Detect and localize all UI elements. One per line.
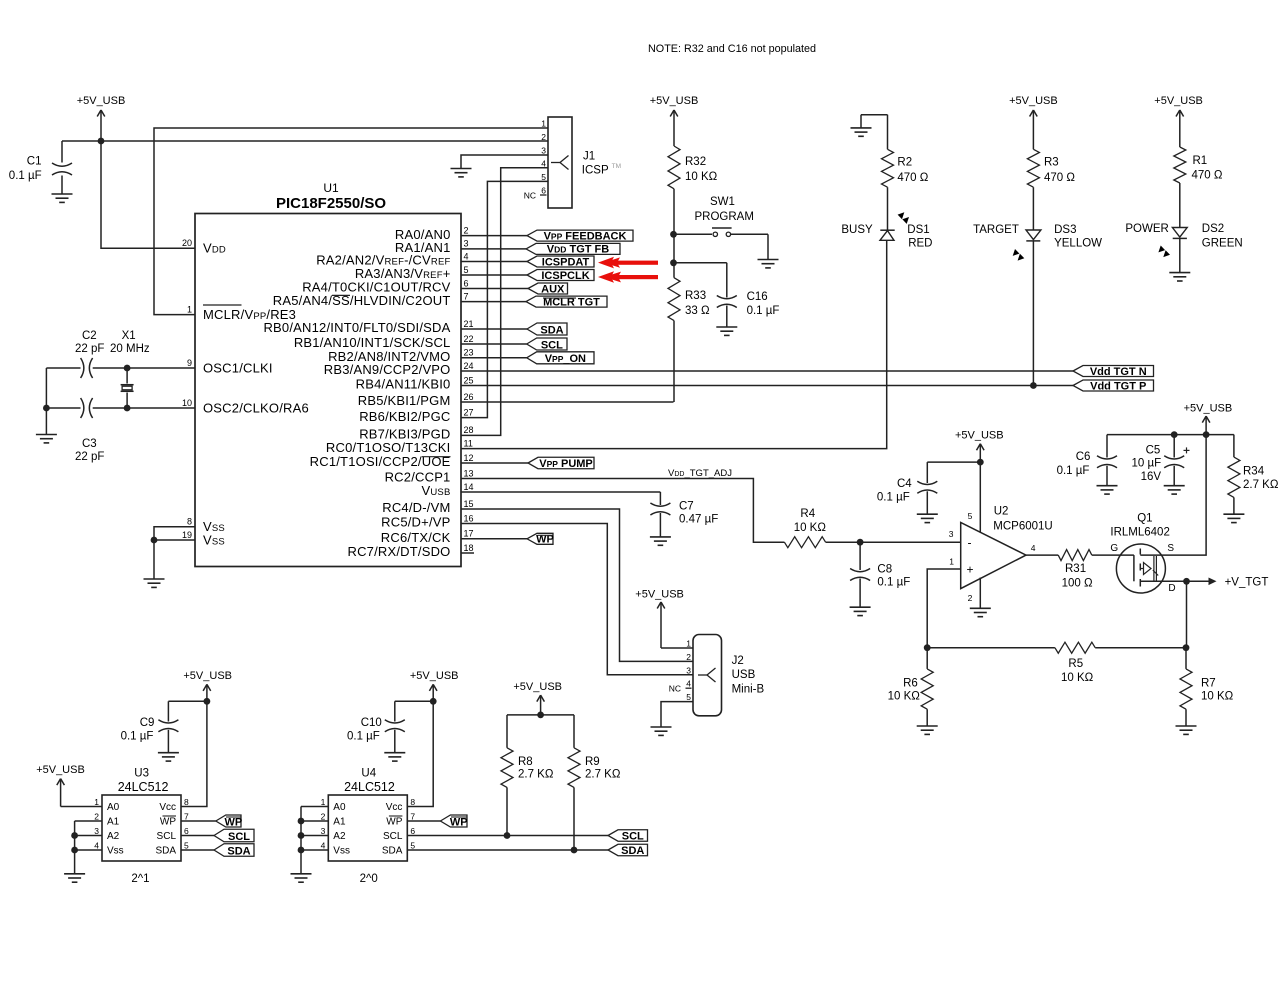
ground (J1 pin3)	[451, 168, 472, 170]
svg-text:SDA: SDA	[227, 846, 250, 858]
node R8/SCL junction	[504, 832, 511, 839]
svg-text:2: 2	[321, 812, 326, 822]
wire RB2 to VPP_ON	[461, 357, 527, 359]
resistor R8	[501, 715, 554, 836]
wire ground to R2	[861, 115, 888, 150]
wire U3 Vcc	[181, 701, 207, 806]
svg-text:IRLML6402: IRLML6402	[1110, 527, 1169, 539]
svg-text:RC4/D-/VM: RC4/D-/VM	[382, 500, 450, 515]
svg-text:2: 2	[968, 593, 973, 603]
svg-text:NC: NC	[669, 684, 681, 694]
svg-text:470 Ω: 470 Ω	[897, 172, 928, 184]
wire R3 to DS3	[1032, 187, 1034, 230]
svg-text:VPP FEEDBACK: VPP FEEDBACK	[544, 230, 627, 242]
svg-text:20: 20	[182, 238, 192, 248]
svg-text:19: 19	[182, 530, 192, 540]
net flag VPP FEEDBACK	[527, 230, 633, 241]
svg-text:+5V_USB: +5V_USB	[1154, 95, 1203, 107]
node U3 A2 junction	[71, 832, 78, 839]
svg-text:6: 6	[464, 278, 469, 288]
node drain junction	[1183, 578, 1190, 585]
svg-text:2: 2	[94, 812, 99, 822]
power +5V_USB (R8/R9)	[540, 695, 542, 715]
ground (DS2)	[1169, 272, 1190, 274]
wire RB3 to Vdd TGT N flag	[461, 370, 1073, 372]
svg-text:C8: C8	[877, 564, 892, 576]
transistor Q1 IRLML6402	[1110, 513, 1169, 594]
wire RC1 to VPP PUMP	[461, 462, 528, 464]
wire node to U2 -in	[860, 541, 961, 543]
svg-text:+5V_USB: +5V_USB	[183, 670, 232, 682]
svg-text:R9: R9	[585, 756, 600, 768]
svg-text:8: 8	[184, 797, 189, 807]
svg-text:10 µF: 10 µF	[1132, 458, 1162, 470]
svg-text:C7: C7	[679, 501, 694, 513]
U1 left pin labels	[182, 238, 309, 547]
svg-text:4: 4	[464, 251, 469, 261]
wire drain to R5/R7 node	[1186, 581, 1188, 647]
svg-text:R1: R1	[1193, 155, 1208, 167]
net flag MCLR TGT	[526, 296, 607, 307]
svg-text:+V_TGT: +V_TGT	[1225, 577, 1269, 589]
ground (J2)	[651, 726, 672, 728]
svg-text:Vss: Vss	[107, 846, 124, 857]
svg-text:4: 4	[686, 679, 691, 689]
node Vss junction	[151, 537, 158, 544]
wire RC6 to WP	[461, 538, 527, 540]
wire RC0 to DS1 column	[461, 240, 887, 448]
svg-text:R5: R5	[1068, 658, 1083, 670]
svg-text:9: 9	[187, 358, 192, 368]
svg-text:WP: WP	[450, 816, 468, 828]
svg-text:A1: A1	[107, 817, 120, 828]
svg-text:470 Ω: 470 Ω	[1044, 172, 1075, 184]
svg-text:A1: A1	[333, 817, 346, 828]
wire RC4 to J2 pin2	[461, 509, 693, 661]
svg-text:100 Ω: 100 Ω	[1062, 578, 1093, 590]
wire pin5 down to opamp	[979, 462, 981, 532]
svg-text:+5V_USB: +5V_USB	[635, 589, 684, 601]
ground (R34)	[1223, 513, 1244, 515]
wire RA0 to VPP FEEDBACK	[461, 235, 527, 237]
crystal X1	[110, 330, 150, 411]
wire RC2 Vdd_TGT_ADJ	[461, 479, 784, 543]
svg-text:2.7 KΩ: 2.7 KΩ	[1243, 479, 1279, 491]
red annotation arrow ICSPCLK	[598, 271, 658, 283]
resistor R33	[668, 263, 710, 321]
svg-text:DS1: DS1	[907, 224, 929, 236]
net flag VPP_ON	[527, 352, 594, 364]
svg-text:U4: U4	[361, 768, 376, 780]
ground (C1)	[52, 193, 73, 195]
svg-text:SCL: SCL	[541, 339, 563, 351]
svg-text:+5V_USB: +5V_USB	[1184, 403, 1233, 415]
svg-text:10 KΩ: 10 KΩ	[1201, 691, 1234, 703]
svg-text:28: 28	[464, 425, 474, 435]
svg-text:8: 8	[410, 797, 415, 807]
capacitor C16	[674, 263, 779, 327]
svg-text:RA5/AN4/SS/HLVDIN/C2OUT: RA5/AN4/SS/HLVDIN/C2OUT	[273, 293, 451, 308]
resistor R6	[888, 648, 934, 726]
svg-text:R33: R33	[685, 290, 706, 302]
wire RC7 stub	[461, 552, 474, 554]
svg-text:PROGRAM: PROGRAM	[695, 211, 754, 223]
node R33/C16 junction	[670, 259, 677, 266]
power +5V_USB (Q1 rail)	[1205, 416, 1207, 435]
ground (C16)	[716, 326, 737, 328]
net flag ICSPDAT	[527, 256, 594, 267]
wire U2 out to R31	[1026, 554, 1058, 556]
wire U2 pin2 to ground	[979, 578, 981, 609]
svg-text:Vdd TGT P: Vdd TGT P	[1090, 380, 1146, 392]
svg-text:2^1: 2^1	[131, 873, 149, 885]
svg-text:24: 24	[464, 361, 474, 371]
svg-text:+5V_USB: +5V_USB	[410, 670, 459, 682]
svg-text:6: 6	[184, 826, 189, 836]
svg-text:WP: WP	[225, 816, 243, 828]
wire U2 +in	[927, 569, 961, 648]
wire Q1 D	[1165, 580, 1187, 582]
svg-text:3: 3	[541, 146, 546, 156]
svg-text:RB0/AN12/INT0/FLT0/SDI/SDA: RB0/AN12/INT0/FLT0/SDI/SDA	[263, 320, 450, 335]
svg-text:4: 4	[1031, 543, 1036, 553]
svg-text:15: 15	[464, 499, 474, 509]
node U4 Vcc junction	[430, 698, 437, 705]
wire RB1 to SCL	[461, 343, 527, 345]
net flag Vdd TGT N	[1073, 366, 1154, 377]
net flag SDA (U3)	[214, 844, 254, 857]
svg-text:20 MHz: 20 MHz	[110, 343, 150, 355]
svg-text:SCL: SCL	[383, 831, 403, 842]
svg-text:22: 22	[464, 334, 474, 344]
power +5V_USB (U2 pin5)	[979, 444, 981, 462]
svg-text:14: 14	[464, 482, 474, 492]
red annotation arrow ICSPDAT	[598, 257, 658, 269]
svg-text:TM: TM	[612, 163, 621, 170]
svg-text:13: 13	[464, 468, 474, 478]
resistor R7	[1180, 648, 1234, 726]
svg-text:ICSPDAT: ICSPDAT	[542, 256, 590, 268]
svg-text:7: 7	[184, 812, 189, 822]
LED DS1	[841, 212, 932, 249]
wire U4 SCL to flag	[407, 835, 608, 837]
svg-text:RC5/D+/VP: RC5/D+/VP	[381, 515, 450, 530]
power +5V_USB (U4 Vcc)	[432, 684, 434, 701]
node R4/C8 junction	[857, 539, 864, 546]
svg-text:3: 3	[94, 826, 99, 836]
node DS3/VddTGTP junction	[1030, 382, 1037, 389]
svg-text:16V: 16V	[1141, 471, 1162, 483]
svg-text:10 KΩ: 10 KΩ	[888, 691, 921, 703]
net flag SCL	[527, 338, 567, 350]
U4 pin labels	[321, 797, 416, 857]
svg-text:Vcc: Vcc	[386, 802, 403, 813]
svg-text:5: 5	[541, 172, 546, 182]
wire +5V to J2 pin1	[661, 647, 693, 649]
svg-text:SCL: SCL	[228, 831, 250, 843]
wire left vertical to ground	[45, 368, 47, 435]
power +5V_USB (U3 Vcc)	[206, 684, 208, 701]
wire RB6 to J1 pin5	[461, 181, 548, 417]
svg-text:0.47 µF: 0.47 µF	[679, 514, 718, 526]
svg-text:22 pF: 22 pF	[75, 343, 104, 355]
svg-text:R31: R31	[1065, 563, 1086, 575]
wire RB7 to J1 pin4	[461, 168, 548, 436]
wire RA3 to ICSPCLK	[461, 274, 527, 276]
svg-text:+5V_USB: +5V_USB	[650, 95, 699, 107]
svg-text:0.1 µF: 0.1 µF	[877, 577, 910, 589]
svg-text:C4: C4	[897, 478, 912, 490]
svg-text:BUSY: BUSY	[841, 224, 873, 236]
svg-text:8: 8	[187, 517, 192, 527]
LED DS2	[1125, 223, 1242, 257]
wire Vss pin8	[154, 527, 195, 540]
svg-text:VPP_ON: VPP_ON	[545, 353, 586, 365]
power +5V_USB (R3)	[1032, 110, 1034, 149]
svg-text:1: 1	[949, 557, 954, 567]
wire U4 A0/A1/A2/Vss rail	[301, 807, 328, 874]
resistor R5	[927, 642, 1186, 684]
ground (C5)	[1164, 485, 1185, 487]
svg-text:Mini-B: Mini-B	[732, 683, 765, 695]
svg-text:C16: C16	[747, 291, 768, 303]
svg-text:MCP6001U: MCP6001U	[993, 521, 1052, 533]
svg-text:RB4/AN11/KBI0: RB4/AN11/KBI0	[356, 377, 451, 392]
connector J2	[669, 635, 765, 716]
svg-text:470 Ω: 470 Ω	[1192, 170, 1223, 182]
net flag Vdd TGT P	[1073, 380, 1154, 391]
svg-text:21: 21	[464, 319, 474, 329]
power +5V_USB (R1)	[1179, 110, 1181, 147]
svg-text:AUX: AUX	[541, 283, 565, 295]
svg-text:0.1 µF: 0.1 µF	[9, 170, 42, 182]
svg-text:SDA: SDA	[621, 845, 644, 857]
wire RC5 to J2 pin3	[461, 524, 693, 675]
svg-text:1: 1	[94, 797, 99, 807]
svg-text:3: 3	[321, 826, 326, 836]
svg-text:0.1 µF: 0.1 µF	[1057, 465, 1090, 477]
svg-text:RC2/CCP1: RC2/CCP1	[385, 470, 451, 485]
svg-text:2.7 KΩ: 2.7 KΩ	[585, 769, 621, 781]
wire Vss pin19	[154, 539, 195, 541]
svg-text:4: 4	[94, 841, 99, 851]
resistor R34	[1228, 435, 1279, 515]
capacitor C3	[75, 398, 104, 463]
svg-text:R8: R8	[518, 756, 533, 768]
svg-text:DS2: DS2	[1202, 223, 1224, 235]
svg-text:R2: R2	[897, 157, 912, 169]
svg-text:WP: WP	[386, 817, 402, 828]
wire U4 WP	[407, 820, 440, 822]
svg-text:A2: A2	[333, 831, 346, 842]
svg-text:ICSP: ICSP	[582, 165, 609, 177]
wire U3 SCL	[181, 835, 214, 837]
wire DS3 to Vdd TGT P	[1032, 241, 1034, 386]
net flag WP (U4)	[440, 815, 467, 827]
capacitor C8	[850, 542, 910, 607]
wire +5V rail (C6/C5/R34)	[1107, 434, 1234, 436]
net flag WP (U1)	[527, 533, 553, 544]
svg-text:27: 27	[464, 407, 474, 417]
svg-text:2: 2	[541, 132, 546, 142]
svg-text:1: 1	[321, 797, 326, 807]
wire RA2 to ICSPDAT	[461, 261, 527, 263]
wire A0	[61, 806, 102, 808]
svg-text:WP: WP	[160, 817, 176, 828]
svg-text:C6: C6	[1076, 451, 1091, 463]
node OSC2 left junction	[43, 405, 50, 412]
svg-text:U3: U3	[134, 768, 149, 780]
U3 24LC512	[102, 768, 181, 862]
svg-text:6: 6	[541, 186, 546, 196]
power +5V_USB (U3 A0)	[60, 779, 62, 807]
switch SW1 PROGRAM	[674, 196, 768, 260]
svg-text:5: 5	[968, 511, 973, 521]
svg-text:S: S	[1167, 543, 1174, 554]
LED DS3	[973, 224, 1102, 261]
svg-text:18: 18	[464, 543, 474, 553]
wire U4 SDA to flag	[407, 849, 608, 851]
svg-text:OSC2/CLKO/RA6: OSC2/CLKO/RA6	[203, 401, 309, 416]
wire RA1 to VDD TGT FB	[461, 248, 526, 250]
svg-text:A2: A2	[107, 831, 120, 842]
svg-text:PIC18F2550/SO: PIC18F2550/SO	[276, 195, 386, 212]
svg-text:SCL: SCL	[157, 831, 177, 842]
svg-text:C1: C1	[27, 156, 42, 168]
resistor R2	[882, 149, 929, 187]
svg-text:3: 3	[464, 239, 469, 249]
svg-text:X1: X1	[122, 330, 136, 342]
node U4 A2 junction	[298, 832, 305, 839]
node U4 Vss junction	[298, 847, 305, 854]
svg-text:RC6/TX/CK: RC6/TX/CK	[381, 530, 451, 545]
net flag SCL (U3)	[214, 829, 254, 842]
wire +5V down to VDD pin20	[101, 141, 195, 248]
svg-text:10 KΩ: 10 KΩ	[685, 171, 718, 183]
wire R1 to DS2	[1179, 183, 1181, 228]
ground (SW1)	[758, 259, 779, 261]
node R5/R7 junction	[1183, 644, 1190, 651]
svg-text:C9: C9	[140, 717, 155, 729]
wire U3 SDA	[181, 849, 214, 851]
svg-text:J2: J2	[732, 655, 744, 667]
svg-text:6: 6	[410, 826, 415, 836]
svg-text:G: G	[1110, 543, 1118, 554]
svg-text:SCL: SCL	[622, 831, 644, 843]
capacitor C6	[1057, 435, 1117, 486]
svg-text:RC0/T1OSO/T13CKI: RC0/T1OSO/T13CKI	[326, 440, 451, 455]
svg-text:+5V_USB: +5V_USB	[955, 429, 1004, 441]
svg-text:R7: R7	[1201, 678, 1216, 690]
svg-text:RED: RED	[908, 238, 932, 250]
wire RB5 to R33	[461, 401, 674, 403]
svg-text:R6: R6	[903, 678, 918, 690]
svg-text:24LC512: 24LC512	[118, 780, 169, 794]
svg-text:7: 7	[410, 812, 415, 822]
svg-text:10 KΩ: 10 KΩ	[794, 522, 827, 534]
net flag ICSPCLK	[527, 270, 594, 281]
net flag WP (U3)	[216, 815, 241, 827]
svg-text:RB1/AN10/INT1/SCK/SCL: RB1/AN10/INT1/SCK/SCL	[294, 335, 451, 350]
resistor R9	[568, 715, 621, 850]
node +5V junction	[98, 138, 105, 145]
svg-text:SDA: SDA	[382, 846, 403, 857]
svg-text:2: 2	[686, 652, 691, 662]
wire Q1 S to +5V rail	[1165, 435, 1207, 555]
svg-text:2: 2	[464, 225, 469, 235]
svg-text:+5V_USB: +5V_USB	[77, 95, 126, 107]
svg-text:+: +	[967, 563, 974, 577]
node R9/SDA junction	[571, 847, 578, 854]
wire U3 A1/A2/Vss rail	[75, 821, 102, 874]
svg-text:NOTE: R32 and C16 not populate: NOTE: R32 and C16 not populated	[648, 43, 816, 55]
svg-text:0.1 µF: 0.1 µF	[347, 731, 380, 743]
svg-text:12: 12	[464, 453, 474, 463]
ground (C10)	[384, 752, 405, 754]
svg-text:RC7/RX/DT/SDO: RC7/RX/DT/SDO	[347, 544, 450, 559]
U4 24LC512	[328, 768, 407, 862]
wire R4 to node	[826, 541, 861, 543]
net flag SCL (right)	[608, 830, 648, 842]
ground (R7)	[1176, 725, 1197, 727]
svg-text:OSC1/CLKI: OSC1/CLKI	[203, 361, 273, 376]
net flag AUX	[528, 283, 568, 294]
svg-text:POWER: POWER	[1125, 223, 1168, 235]
capacitor C1	[9, 141, 72, 194]
wire VUSB to C7	[461, 491, 660, 493]
net flag SDA (right)	[608, 844, 648, 856]
power +5V_USB (R32)	[673, 110, 675, 146]
power +5V_USB (J2)	[660, 602, 662, 648]
ground (U2 pin2)	[970, 607, 991, 609]
U1 PIC18F2550/SO	[195, 181, 461, 567]
resistor R31	[1058, 550, 1093, 590]
svg-text:+5V_USB: +5V_USB	[36, 764, 85, 776]
svg-text:-: -	[968, 536, 972, 550]
svg-text:YELLOW: YELLOW	[1054, 238, 1102, 250]
net flag VDD TGT FB	[526, 243, 620, 254]
svg-text:11: 11	[464, 438, 473, 448]
capacitor C10	[347, 701, 433, 752]
svg-text:5: 5	[184, 841, 189, 851]
connector J1	[524, 117, 621, 208]
node R8/R9 rail junction	[537, 712, 544, 719]
net flag VPP PUMP	[528, 457, 594, 469]
svg-text:0.1 µF: 0.1 µF	[747, 305, 780, 317]
svg-text:R4: R4	[800, 508, 815, 520]
svg-text:0.1 µF: 0.1 µF	[121, 731, 154, 743]
svg-text:U2: U2	[994, 506, 1009, 518]
svg-text:VPP PUMP: VPP PUMP	[539, 458, 593, 470]
svg-text:10 KΩ: 10 KΩ	[1061, 672, 1094, 684]
node U4 A1 junction	[298, 818, 305, 825]
U1 right pin labels	[263, 225, 473, 559]
node C5 rail junction	[1171, 431, 1178, 438]
wire J1 pin3 to ground	[461, 155, 548, 169]
svg-text:TARGET: TARGET	[973, 224, 1019, 236]
label +V_TGT with arrow	[1187, 577, 1269, 589]
svg-text:24LC512: 24LC512	[344, 780, 395, 794]
svg-text:25: 25	[464, 375, 474, 385]
svg-text:Q1: Q1	[1137, 513, 1152, 525]
svg-text:USB: USB	[732, 669, 756, 681]
capacitor C2	[75, 330, 104, 378]
svg-text:RB5/KBI1/PGM: RB5/KBI1/PGM	[358, 393, 451, 408]
wire Vss to ground	[153, 540, 155, 579]
wire OSC2	[46, 407, 80, 409]
wire J1 pin1 to MCLR	[154, 128, 548, 315]
capacitor C9	[121, 701, 207, 752]
